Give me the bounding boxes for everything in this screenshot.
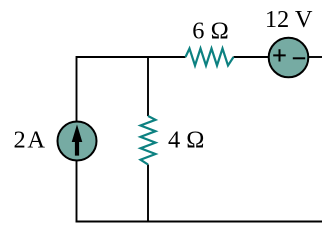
current source arrow (pointing up) [72,125,83,156]
voltage source plus sign [273,49,286,61]
voltage source minus sign [293,57,305,59]
wire middle vertical lower (4-ohm resistor to bottom wire) [147,165,149,223]
wire bottom (left corner to right edge) [76,221,322,223]
wire left vertical lower (current source to bottom wire) [76,161,78,223]
resistor 6-ohm (horizontal zigzag) [186,49,234,66]
svg-text:12 V: 12 V [265,6,313,33]
wire top right (voltage source to right edge) [308,56,322,58]
current source 2A (circle) [58,122,97,161]
wire middle vertical upper (node to 4-ohm resistor) [147,56,149,116]
voltage source 12V (circle) [269,38,309,78]
resistor 4-ohm (vertical zigzag) [141,116,156,165]
wire top-left corner (current source to node, up and across) [77,57,186,122]
svg-text:2 A: 2 A [13,127,45,154]
svg-text:6 Ω: 6 Ω [192,18,228,45]
svg-text:4 Ω: 4 Ω [168,127,204,154]
wire top middle (6-ohm resistor to voltage source) [234,56,270,58]
